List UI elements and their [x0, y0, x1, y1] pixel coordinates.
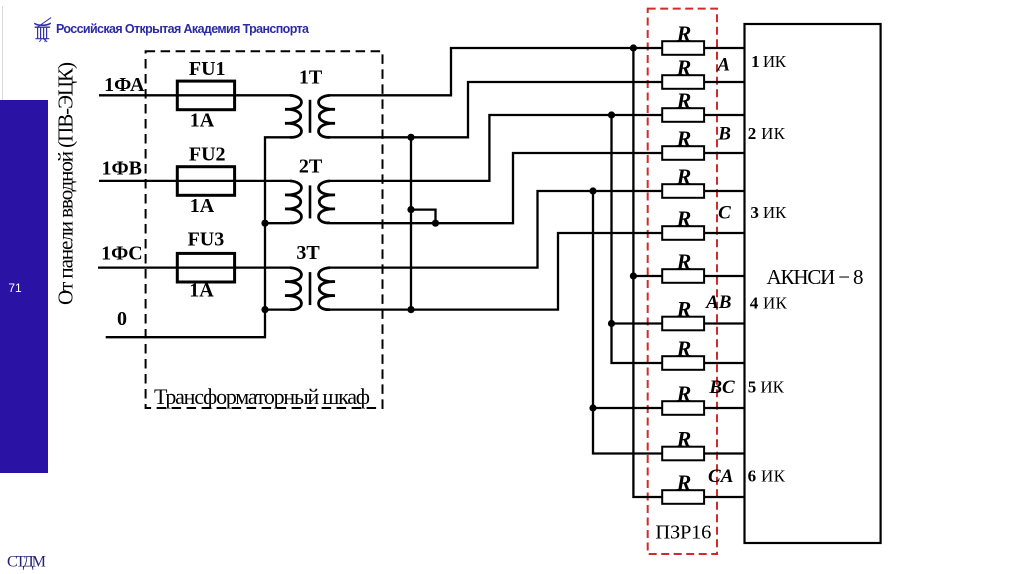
svg-text:2 ИК: 2 ИК [748, 124, 786, 143]
svg-text:R: R [676, 249, 692, 274]
svg-text:Трансформаторный шкаф: Трансформаторный шкаф [154, 384, 370, 409]
svg-text:3 ИК: 3 ИК [750, 203, 787, 222]
svg-text:R: R [676, 427, 692, 452]
svg-text:R: R [676, 21, 692, 46]
svg-text:1А: 1А [190, 110, 215, 132]
svg-text:1 ИК: 1 ИК [751, 52, 787, 71]
svg-text:R: R [676, 381, 692, 406]
svg-text:6 ИК: 6 ИК [748, 466, 786, 485]
svg-text:3Т: 3Т [296, 242, 320, 264]
svg-text:Российская Открытая Академия Т: Российская Открытая Академия Транспорта [56, 22, 310, 36]
svg-text:C: C [718, 203, 731, 224]
svg-text:R: R [676, 126, 692, 151]
svg-text:R: R [676, 55, 692, 80]
svg-text:FU3: FU3 [188, 229, 225, 251]
svg-text:От панели вводной (ПВ-ЭЦК): От панели вводной (ПВ-ЭЦК) [54, 62, 78, 305]
svg-text:R: R [676, 297, 692, 322]
svg-text:4 ИК: 4 ИК [750, 293, 788, 312]
svg-text:1ФА: 1ФА [104, 74, 145, 96]
svg-text:ПЗР16: ПЗР16 [655, 522, 711, 544]
svg-text:A: A [716, 55, 730, 76]
svg-text:B: B [717, 123, 731, 144]
svg-text:FU1: FU1 [189, 58, 226, 80]
svg-text:R: R [676, 470, 692, 495]
svg-text:1Т: 1Т [299, 66, 323, 88]
svg-text:5 ИК: 5 ИК [748, 378, 785, 397]
svg-text:1А: 1А [190, 195, 215, 217]
svg-text:2Т: 2Т [299, 156, 323, 178]
svg-text:1ФВ: 1ФВ [101, 158, 142, 180]
svg-text:BC: BC [708, 377, 735, 398]
svg-text:FU2: FU2 [189, 144, 226, 166]
svg-text:АКНСИ − 8: АКНСИ − 8 [767, 265, 864, 289]
svg-text:СТДМ: СТДМ [7, 554, 46, 571]
svg-text:R: R [676, 206, 692, 231]
svg-text:R: R [676, 336, 692, 361]
svg-text:1А: 1А [189, 280, 214, 302]
svg-text:1ФС: 1ФС [101, 242, 143, 264]
svg-text:CA: CA [708, 466, 733, 487]
svg-text:R: R [676, 88, 692, 113]
svg-text:0: 0 [117, 308, 127, 330]
svg-text:R: R [676, 164, 692, 189]
svg-text:AB: AB [705, 292, 731, 313]
